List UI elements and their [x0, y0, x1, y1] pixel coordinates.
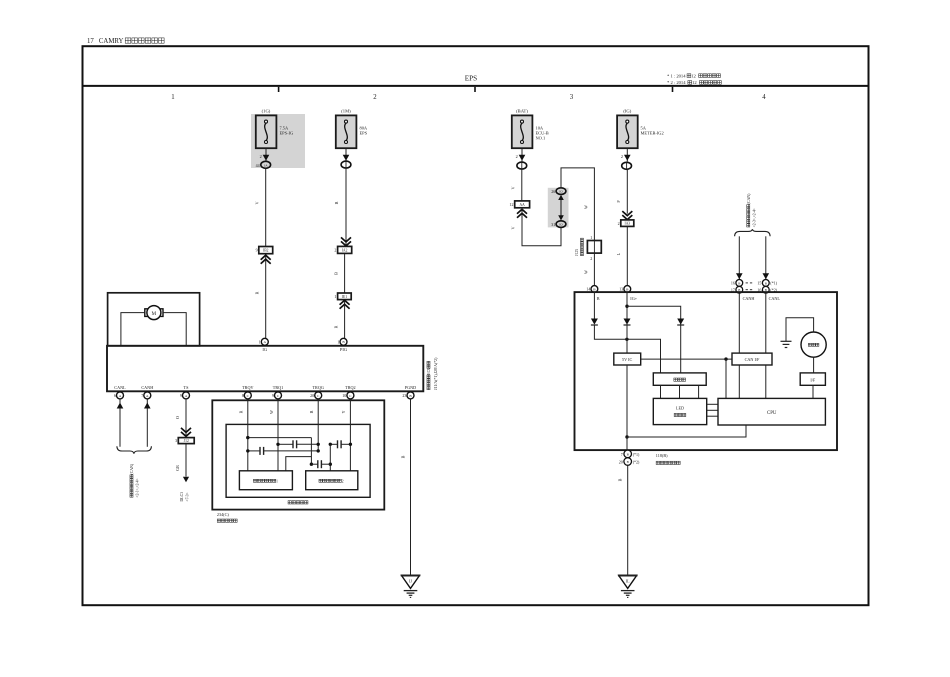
svg-text:GR: GR: [175, 465, 180, 471]
svg-text:R: R: [255, 291, 260, 294]
svg-text:7: 7: [621, 452, 623, 457]
svg-text:W: W: [269, 410, 274, 414]
svg-text:4: 4: [762, 94, 766, 101]
svg-text:TRQV: TRQV: [242, 385, 253, 390]
svg-text:L: L: [616, 252, 621, 255]
svg-text:CANL: CANL: [769, 296, 781, 301]
svg-text:CANL: CANL: [114, 385, 126, 390]
svg-text:AA: AA: [520, 203, 526, 207]
svg-text:1: 1: [171, 94, 174, 101]
svg-text:12: 12: [691, 73, 696, 78]
svg-text:LED: LED: [676, 405, 684, 410]
svg-text:M: M: [152, 312, 157, 317]
svg-text:V: V: [511, 226, 516, 229]
svg-text:2: 2: [621, 154, 623, 159]
svg-text:80A: 80A: [360, 125, 368, 130]
svg-text:12: 12: [692, 80, 697, 85]
svg-text:16: 16: [731, 281, 735, 286]
svg-text:20: 20: [310, 393, 314, 398]
svg-text:EPS-IG: EPS-IG: [280, 131, 294, 136]
svg-text:118(B): 118(B): [656, 453, 668, 458]
svg-text:234(C): 234(C): [217, 512, 229, 517]
svg-text:44: 44: [256, 163, 260, 168]
svg-text:IG+: IG+: [630, 296, 637, 301]
svg-text:7.5A: 7.5A: [280, 125, 289, 130]
svg-text:(1G): (1G): [262, 108, 271, 113]
svg-text:2: 2: [334, 248, 336, 253]
svg-text:DLC3: DLC3: [180, 492, 184, 502]
svg-text:V: V: [255, 201, 260, 204]
svg-text:W: W: [584, 270, 589, 274]
svg-text:(CAN): (CAN): [747, 193, 751, 205]
svg-text:1A: 1A: [264, 163, 269, 167]
svg-text:7: 7: [141, 393, 143, 398]
svg-text:B: B: [597, 296, 600, 301]
svg-text:(*1): (*1): [770, 281, 777, 286]
svg-text:TRQG: TRQG: [312, 385, 323, 390]
svg-text:2: 2: [260, 154, 262, 159]
svg-text:1: 1: [259, 339, 261, 344]
svg-text:TS: TS: [184, 385, 190, 390]
svg-text:B: B: [765, 281, 767, 285]
svg-text:(*1): (*1): [633, 452, 640, 457]
svg-text:23: 23: [402, 393, 406, 398]
svg-text:31: 31: [551, 222, 555, 227]
svg-text:B: B: [334, 201, 339, 204]
svg-text:O: O: [175, 416, 180, 419]
svg-text:IA3: IA3: [625, 222, 631, 226]
svg-text:IA2: IA2: [342, 248, 348, 252]
svg-text:B: B: [618, 478, 623, 481]
svg-text:EPS: EPS: [465, 75, 477, 83]
svg-text:5V IC: 5V IC: [622, 357, 632, 362]
svg-text:B: B: [401, 455, 406, 458]
svg-text:EPS: EPS: [360, 131, 368, 136]
svg-text:IL: IL: [626, 578, 630, 583]
svg-text:20: 20: [619, 460, 623, 465]
svg-text:8: 8: [242, 393, 244, 398]
svg-text:(1M): (1M): [341, 108, 351, 113]
svg-text:TRQ1: TRQ1: [273, 385, 283, 390]
svg-text:1: 1: [276, 479, 278, 483]
svg-text:B: B: [333, 272, 338, 275]
svg-text:12: 12: [510, 202, 514, 207]
svg-text:6: 6: [114, 393, 116, 398]
svg-text:J125: J125: [575, 249, 579, 256]
svg-text:ECU: ECU: [427, 367, 431, 375]
svg-text:2: 2: [373, 94, 377, 101]
svg-text:IG: IG: [262, 347, 267, 352]
svg-text:(CAN): (CAN): [130, 463, 134, 475]
svg-text:(BAT): (BAT): [516, 108, 528, 113]
svg-text:CPU: CPU: [767, 411, 777, 416]
svg-text:(*2): (*2): [633, 460, 640, 465]
svg-text:TRQ2: TRQ2: [345, 385, 355, 390]
svg-text:3: 3: [175, 438, 177, 443]
svg-text:15: 15: [757, 281, 761, 286]
svg-text:IJ: IJ: [409, 578, 412, 583]
svg-text:9: 9: [180, 393, 182, 398]
svg-text:CAN I/F: CAN I/F: [745, 357, 760, 362]
svg-text:R: R: [333, 325, 338, 328]
svg-text:2: 2: [618, 221, 620, 226]
svg-text:2: 2: [342, 479, 344, 483]
svg-text:PGND: PGND: [405, 385, 416, 390]
svg-text:Y: Y: [341, 410, 346, 413]
svg-text:14: 14: [586, 287, 590, 292]
svg-text:PIG: PIG: [340, 347, 348, 352]
svg-text:9: 9: [256, 248, 258, 253]
svg-text:* 2 : 2014: * 2 : 2014: [667, 80, 686, 85]
svg-text:W: W: [584, 205, 589, 209]
svg-text:IB2: IB2: [263, 249, 269, 253]
svg-text:V: V: [511, 186, 516, 189]
svg-text:5A: 5A: [641, 125, 647, 130]
svg-text:NO.1: NO.1: [536, 136, 546, 141]
svg-text:2: 2: [516, 154, 518, 159]
svg-text:(IG): (IG): [623, 108, 631, 113]
svg-text:I/F: I/F: [810, 377, 816, 382]
svg-text:9: 9: [272, 393, 274, 398]
svg-text:J12: J12: [184, 439, 189, 443]
svg-text:IE1: IE1: [342, 295, 347, 299]
svg-text:* 1 : 2014: * 1 : 2014: [667, 73, 686, 78]
svg-text:R: R: [239, 410, 244, 413]
svg-text:METER-IG2: METER-IG2: [641, 131, 664, 136]
svg-text:26: 26: [551, 189, 555, 194]
svg-text:1: 1: [334, 294, 336, 299]
svg-text:CANH: CANH: [141, 385, 153, 390]
svg-text:1: 1: [590, 235, 592, 240]
svg-text:2: 2: [590, 256, 592, 261]
svg-text:<7-3>: <7-3>: [186, 492, 190, 501]
svg-text:CANH: CANH: [743, 296, 755, 301]
svg-text:1: 1: [337, 339, 339, 344]
svg-text:B: B: [309, 410, 314, 413]
svg-text:17 CAMRY: 17 CAMRY: [87, 38, 125, 45]
svg-text:3: 3: [570, 94, 574, 101]
svg-text:13: 13: [619, 287, 623, 292]
svg-text:B: B: [738, 281, 740, 285]
svg-text:10: 10: [342, 393, 346, 398]
